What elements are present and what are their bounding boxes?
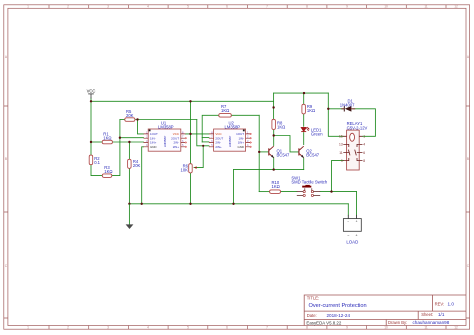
svg-text:3: 3 [107,5,109,9]
svg-text:TITLE:: TITLE: [307,295,320,300]
svg-text:2018-12-24: 2018-12-24 [327,313,351,318]
svg-text:16: 16 [339,135,343,139]
svg-text:BC547: BC547 [277,153,290,158]
svg-text:1: 1 [27,326,29,330]
svg-text:6: 6 [363,151,365,155]
svg-text:C: C [5,264,8,268]
svg-text:G5V-2-12V: G5V-2-12V [347,125,368,130]
svg-text:−: − [347,233,350,237]
svg-text:LM358P: LM358P [163,136,167,148]
svg-text:1KΩ: 1KΩ [103,135,111,140]
svg-text:LM358P: LM358P [225,124,241,129]
svg-text:LM358P: LM358P [228,136,232,148]
svg-text:12: 12 [454,5,458,9]
svg-text:5: 5 [187,326,189,330]
svg-text:LM358P: LM358P [158,124,174,129]
svg-text:+: + [356,220,358,224]
svg-text:7: 7 [266,5,268,9]
svg-text:7: 7 [266,326,268,330]
svg-text:4: 4 [147,5,149,9]
svg-text:1KΩ: 1KΩ [277,124,285,129]
svg-text:1KΩ: 1KΩ [307,108,315,113]
svg-text:1KΩ: 1KΩ [221,108,229,113]
svg-text:GND: GND [150,145,157,149]
svg-text:1KΩ: 1KΩ [104,169,112,174]
svg-text:−: − [347,220,349,224]
svg-text:9: 9 [346,326,348,330]
svg-text:SMD Tactile Switch: SMD Tactile Switch [291,180,327,185]
svg-text:Drawn By:: Drawn By: [388,320,407,325]
svg-text:Green: Green [311,132,323,137]
svg-text:VCC: VCC [87,89,96,94]
svg-text:10K: 10K [181,168,189,173]
svg-text:3: 3 [107,326,109,330]
svg-text:chauhannaman98: chauhannaman98 [413,320,450,325]
svg-text:11: 11 [424,326,428,330]
svg-text:4: 4 [147,326,149,330]
svg-text:Over-current Protection: Over-current Protection [309,303,367,309]
svg-text:REV:: REV: [435,301,445,306]
svg-text:1.0: 1.0 [448,301,455,306]
svg-text:12: 12 [454,326,458,330]
svg-text:1N4007: 1N4007 [340,103,355,108]
svg-text:2: 2 [67,5,69,9]
svg-text:GND: GND [237,145,244,149]
svg-text:B: B [467,157,469,161]
svg-text:20K: 20K [126,113,134,118]
svg-text:1: 1 [27,5,29,9]
svg-text:VCC: VCC [173,132,180,136]
svg-text:5: 5 [187,5,189,9]
svg-text:0.1: 0.1 [94,160,100,165]
svg-text:8: 8 [306,326,308,330]
svg-text:9: 9 [346,5,348,9]
svg-text:+: + [355,233,358,237]
svg-text:B: B [5,157,7,161]
svg-text:11: 11 [339,151,343,155]
svg-text:8: 8 [363,159,365,163]
svg-text:Sheet:: Sheet: [421,312,433,317]
svg-text:10: 10 [384,326,388,330]
svg-text:2: 2 [67,326,69,330]
svg-text:11: 11 [424,5,428,9]
svg-text:20K: 20K [133,163,141,168]
svg-text:LOAD: LOAD [346,240,358,245]
svg-text:2IN+: 2IN+ [173,145,180,149]
svg-text:6: 6 [226,5,228,9]
svg-text:Date:: Date: [307,313,317,318]
svg-text:1KΩ: 1KΩ [272,184,280,189]
svg-text:A: A [5,55,8,59]
svg-text:1: 1 [363,135,365,139]
svg-text:9: 9 [341,159,343,163]
svg-text:6: 6 [226,326,228,330]
svg-text:13: 13 [339,143,343,147]
svg-text:8: 8 [306,5,308,9]
svg-text:4: 4 [363,143,365,147]
svg-text:1/1: 1/1 [438,312,445,317]
svg-text:EasyEDA V5.8.22: EasyEDA V5.8.22 [306,320,341,325]
svg-text:2IN+: 2IN+ [215,145,222,149]
svg-text:BC547: BC547 [306,153,319,158]
svg-text:10: 10 [384,5,388,9]
